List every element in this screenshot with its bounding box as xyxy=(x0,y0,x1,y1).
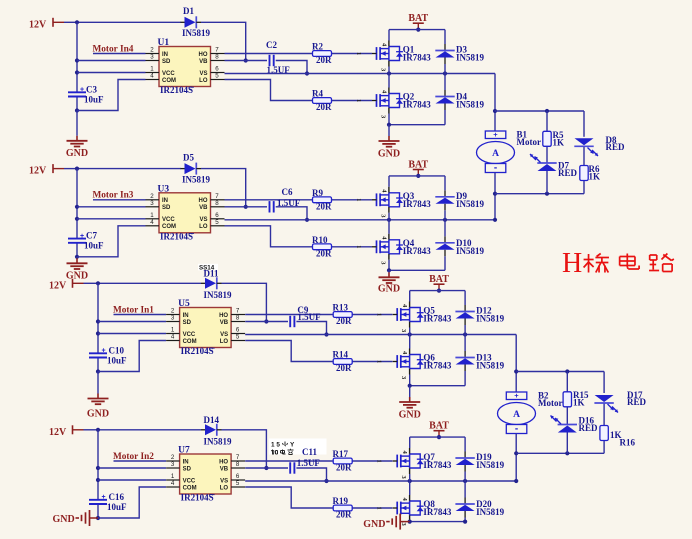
transistor Q4 IR7843 xyxy=(355,234,403,265)
wire SD tie S1 xyxy=(77,60,146,62)
label D9 xyxy=(456,191,467,201)
transistor Q5 IR7843 xyxy=(376,302,424,334)
svg-text:10uF: 10uF xyxy=(84,241,104,251)
label D13 IN5819 xyxy=(476,361,505,371)
label Q8 IR7843 xyxy=(423,507,452,517)
svg-text:IN5819: IN5819 xyxy=(456,246,485,256)
wire VB row S4 xyxy=(245,467,288,469)
label D16 xyxy=(579,416,595,426)
wire Q6 drain S3 xyxy=(409,335,411,349)
op-amp driver U3 IR2104S xyxy=(146,184,225,241)
svg-text:D11: D11 xyxy=(204,268,220,278)
svg-text:4: 4 xyxy=(150,219,154,226)
svg-text:20R: 20R xyxy=(336,316,352,326)
label Q7 IR7843 xyxy=(423,460,452,470)
net label Motor In3 S2 xyxy=(93,191,134,201)
net label Motor In4 S1 xyxy=(93,44,134,54)
wire VCC tie S1 xyxy=(77,72,146,74)
svg-text:HO: HO xyxy=(199,52,208,58)
wire LO to gate S3 xyxy=(245,341,392,362)
node 12V junction S3 xyxy=(96,281,100,285)
resistor R6 xyxy=(580,166,588,181)
capacitor C11 xyxy=(290,462,294,473)
wire Q8 drain S4 xyxy=(409,481,411,495)
wire COM return S3 xyxy=(98,341,166,372)
wire Q4 drain S2 xyxy=(388,220,390,234)
svg-text:VB: VB xyxy=(220,320,229,326)
svg-text:IN5819: IN5819 xyxy=(456,100,485,110)
svg-text:COM: COM xyxy=(183,339,197,345)
label Q1 IR7843 xyxy=(403,53,432,63)
label R19 20R xyxy=(336,510,352,520)
svg-text:2: 2 xyxy=(150,193,154,200)
svg-text:1K: 1K xyxy=(553,137,565,147)
label Q6 IR7843 xyxy=(423,361,452,371)
svg-text:+: + xyxy=(514,391,519,400)
wire 12V trunk S1 xyxy=(75,22,79,112)
resistor R16 xyxy=(600,426,608,441)
svg-text:COM: COM xyxy=(162,224,176,230)
svg-text:IN: IN xyxy=(183,459,189,465)
text note SS14 xyxy=(198,264,218,272)
wire COM return S2 xyxy=(77,226,146,257)
label D3 xyxy=(456,45,467,55)
svg-text:1.5UF: 1.5UF xyxy=(297,312,321,322)
wire LED rail bottom B2 xyxy=(516,451,604,455)
wire VCC tie S4 xyxy=(98,479,166,481)
svg-text:1: 1 xyxy=(376,360,383,363)
svg-text:1: 1 xyxy=(171,473,175,480)
diode D10 xyxy=(435,236,454,256)
label Q4 IR7843 xyxy=(403,246,432,256)
svg-text:8: 8 xyxy=(215,200,219,207)
label C6 xyxy=(277,187,301,208)
label D14 xyxy=(204,415,220,425)
svg-text:IR7843: IR7843 xyxy=(423,460,452,470)
svg-text:VS: VS xyxy=(199,71,207,77)
wire C6 to VS S2 xyxy=(276,207,309,222)
label D14 IN5819 xyxy=(204,436,233,446)
wire D17-R16 branch xyxy=(603,372,605,454)
svg-text:6: 6 xyxy=(215,66,219,73)
svg-text:SD: SD xyxy=(183,466,192,472)
svg-text:BAT: BAT xyxy=(408,13,428,24)
wire D9 column S2 xyxy=(444,176,446,220)
ground bridge S2 xyxy=(378,270,400,294)
wire bottom rail S4 xyxy=(408,520,466,524)
svg-text:R13: R13 xyxy=(333,303,349,313)
svg-text:IN: IN xyxy=(162,198,168,204)
svg-text:7: 7 xyxy=(236,308,240,315)
svg-text:6: 6 xyxy=(215,212,219,219)
diode D11 xyxy=(201,277,222,289)
wire LED rail top B1 xyxy=(495,109,584,113)
svg-text:U5: U5 xyxy=(178,299,190,309)
svg-text:5: 5 xyxy=(236,480,240,487)
svg-text:12V: 12V xyxy=(29,166,47,177)
svg-text:C2: C2 xyxy=(266,40,277,50)
label D20 xyxy=(476,499,492,509)
wire D20 column S4 xyxy=(464,481,466,522)
label R2 20R xyxy=(316,55,332,65)
svg-text:1: 1 xyxy=(376,313,383,316)
svg-text:Motor: Motor xyxy=(538,398,563,408)
resistor R13 xyxy=(333,312,352,318)
svg-text:10uF: 10uF xyxy=(107,502,127,512)
label Q4 xyxy=(403,238,415,248)
svg-text:LO: LO xyxy=(199,78,208,84)
LED D8 red xyxy=(574,138,598,156)
wire bottom rail S2 xyxy=(387,268,445,272)
svg-text:VB: VB xyxy=(220,466,229,472)
wire LO to gate S1 xyxy=(225,80,373,101)
wire C11 to VS S4 xyxy=(296,468,328,483)
svg-text:RED: RED xyxy=(558,168,578,178)
svg-text:A: A xyxy=(513,410,520,420)
transistor Q8 IR7843 xyxy=(376,495,424,527)
svg-text:8: 8 xyxy=(215,54,219,61)
wire HO to gate S3 xyxy=(245,314,392,316)
label Q2 xyxy=(403,92,415,102)
diode D1 xyxy=(181,16,202,28)
label D5 IN5819 xyxy=(182,174,211,184)
resistor R19 xyxy=(333,505,352,511)
svg-text:R19: R19 xyxy=(333,496,349,506)
label C7 xyxy=(80,231,104,251)
wire Q2 source S1 xyxy=(388,114,390,125)
label D11 IN5819 xyxy=(204,290,233,300)
power port BAT S2 xyxy=(408,159,428,178)
label Q7 xyxy=(423,452,435,462)
svg-text:GND: GND xyxy=(66,148,88,159)
wire 12V rail S3 xyxy=(98,282,201,284)
svg-text:1: 1 xyxy=(355,99,362,102)
wire LO to gate S2 xyxy=(225,226,373,247)
label Q5 IR7843 xyxy=(423,314,452,324)
wire D4 column S1 xyxy=(444,74,446,125)
label D3 IN5819 xyxy=(456,53,485,63)
svg-text:5: 5 xyxy=(236,334,240,341)
ground bridge S4 xyxy=(363,514,410,531)
svg-text:3: 3 xyxy=(171,315,175,322)
svg-text:1: 1 xyxy=(355,198,362,201)
svg-text:IN5819: IN5819 xyxy=(476,314,505,324)
resistor R10 xyxy=(313,244,332,250)
svg-text:+: + xyxy=(102,494,106,501)
label D13 xyxy=(476,353,492,363)
diode D9 xyxy=(435,190,454,210)
text note capacitor xyxy=(269,439,327,455)
label D4 xyxy=(456,92,467,102)
svg-text:-: - xyxy=(494,163,497,174)
label R9 xyxy=(312,188,323,198)
svg-text:U3: U3 xyxy=(158,184,170,194)
wire VCC tie S2 xyxy=(77,218,146,220)
label D9 IN5819 xyxy=(456,199,485,209)
label D8 xyxy=(606,135,617,145)
capacitor C2 xyxy=(270,55,274,66)
svg-text:20R: 20R xyxy=(336,510,352,520)
svg-text:2: 2 xyxy=(171,308,175,315)
svg-text:Motor: Motor xyxy=(517,137,542,147)
svg-text:R9: R9 xyxy=(312,188,323,198)
label R14 20R xyxy=(336,363,352,373)
svg-text:IN5819: IN5819 xyxy=(476,361,505,371)
svg-text:IN: IN xyxy=(162,52,168,58)
wire BAT rail S2 xyxy=(389,175,445,177)
label D19 xyxy=(476,452,492,462)
svg-text:RED: RED xyxy=(606,142,626,152)
label C16 xyxy=(102,492,128,512)
svg-text:1.5UF: 1.5UF xyxy=(277,198,301,208)
svg-text:GND: GND xyxy=(66,270,88,281)
svg-text:COM: COM xyxy=(183,485,197,491)
LED D7 red xyxy=(530,154,557,171)
wire Q5 source to phase S3 xyxy=(409,328,411,335)
power port 12V S2 xyxy=(29,164,77,177)
label D17 RED xyxy=(627,397,647,407)
svg-text:20R: 20R xyxy=(316,102,332,112)
label C11 xyxy=(297,447,321,468)
resistor R15 xyxy=(563,392,571,407)
label D11 xyxy=(204,268,220,278)
svg-text:IN5819: IN5819 xyxy=(182,28,211,38)
label D7 RED xyxy=(558,168,578,178)
svg-text:10uF: 10uF xyxy=(107,355,127,365)
wire D14 cathode to VB S4 xyxy=(222,430,269,470)
label Q8 xyxy=(423,499,435,509)
wire D19 column S4 xyxy=(464,437,466,481)
svg-text:2: 2 xyxy=(150,47,154,54)
node Q8 source junction S4 xyxy=(463,520,467,524)
label Q1 xyxy=(403,45,415,55)
label R13 20R xyxy=(336,316,352,326)
svg-text:1 5: 1 5 xyxy=(271,442,280,449)
wire C9 to VS S3 xyxy=(296,322,328,337)
svg-text:10uF: 10uF xyxy=(84,94,104,104)
svg-text:IN5819: IN5819 xyxy=(456,199,485,209)
wire BAT rail S3 xyxy=(410,290,465,292)
svg-text:H: H xyxy=(562,248,582,279)
wire 12V trunk S3 xyxy=(96,283,100,373)
svg-text:1K: 1K xyxy=(573,397,585,407)
wire COM return S4 xyxy=(98,487,166,518)
label R6 1K xyxy=(589,171,601,181)
wire SD tie S3 xyxy=(98,321,166,323)
capacitor C9 xyxy=(290,316,294,327)
wire D12 column S3 xyxy=(464,291,466,335)
label D10 IN5819 xyxy=(456,246,485,256)
svg-text:VS: VS xyxy=(199,217,207,223)
svg-text:LO: LO xyxy=(220,485,229,491)
resistor R4 xyxy=(313,98,332,104)
svg-text:1: 1 xyxy=(150,66,154,73)
label R16 1K xyxy=(610,430,622,440)
label C3 xyxy=(80,84,104,104)
svg-text:GND: GND xyxy=(363,519,385,530)
capacitor C3 xyxy=(68,92,86,96)
label D1 IN5819 xyxy=(182,28,211,38)
svg-text:12V: 12V xyxy=(49,427,67,438)
svg-text:VS: VS xyxy=(220,478,228,484)
svg-text:7: 7 xyxy=(215,193,219,200)
wire BAT rail S4 xyxy=(410,436,465,438)
svg-text:1K: 1K xyxy=(589,171,601,181)
label C2 xyxy=(266,40,290,75)
svg-text:1: 1 xyxy=(150,212,154,219)
resistor R5 xyxy=(543,131,551,146)
resistor R2 xyxy=(313,51,332,57)
svg-text:4: 4 xyxy=(150,73,154,80)
svg-text:SD: SD xyxy=(162,205,171,211)
svg-text:VB: VB xyxy=(199,205,208,211)
svg-text:6: 6 xyxy=(236,473,240,480)
svg-text:12V: 12V xyxy=(49,280,67,291)
wire VB row S1 xyxy=(225,60,268,62)
svg-text:+: + xyxy=(80,87,84,94)
capacitor C16 xyxy=(89,500,107,504)
node 12V junction S1 xyxy=(75,20,79,24)
ground GND left S3 xyxy=(87,372,109,420)
svg-text:20R: 20R xyxy=(316,55,332,65)
svg-text:1.5UF: 1.5UF xyxy=(297,458,321,468)
label D12 IN5819 xyxy=(476,314,505,324)
svg-text:VCC: VCC xyxy=(162,71,175,77)
wire VB row S2 xyxy=(225,206,268,208)
wire D10 column S2 xyxy=(444,220,446,270)
svg-text:BAT: BAT xyxy=(408,159,428,170)
svg-text:C11: C11 xyxy=(302,447,318,457)
wire Q3 source to phase S2 xyxy=(388,213,390,220)
svg-text:D1: D1 xyxy=(183,6,194,16)
label D16 RED xyxy=(579,423,599,433)
label C9 xyxy=(297,305,321,322)
label D4 IN5819 xyxy=(456,100,485,110)
power port 12V S1 xyxy=(29,18,77,31)
svg-text:C10: C10 xyxy=(109,345,125,355)
ground GND left S2 xyxy=(66,257,88,282)
transistor Q3 IR7843 xyxy=(355,187,403,219)
svg-text:3: 3 xyxy=(171,461,175,468)
svg-text:C16: C16 xyxy=(109,492,125,502)
label R4 xyxy=(312,89,323,99)
label R10 xyxy=(312,235,328,245)
svg-text:HO: HO xyxy=(219,459,228,465)
svg-text:D5: D5 xyxy=(183,152,194,162)
svg-text:IN5819: IN5819 xyxy=(204,290,233,300)
label Q6 xyxy=(423,353,435,363)
svg-text:12V: 12V xyxy=(29,19,47,30)
svg-text:IR7843: IR7843 xyxy=(403,100,432,110)
label D19 IN5819 xyxy=(476,460,505,470)
ground GND left S4 xyxy=(53,510,99,526)
power port BAT S4 xyxy=(429,421,449,440)
net label Motor In1 S3 xyxy=(113,305,154,315)
svg-text:1: 1 xyxy=(376,460,383,463)
wire LO to gate S4 xyxy=(245,487,392,508)
diode D19 xyxy=(455,452,474,472)
label R17 20R xyxy=(336,463,352,473)
wire 12V rail S1 xyxy=(77,21,181,23)
label R10 20R xyxy=(316,249,332,259)
label R2 xyxy=(312,42,323,52)
svg-text:R10: R10 xyxy=(312,235,328,245)
label R15 1K xyxy=(573,397,585,407)
label D8 RED xyxy=(606,142,626,152)
svg-text:2: 2 xyxy=(171,454,175,461)
svg-text:U1: U1 xyxy=(158,38,170,48)
label D7 xyxy=(558,161,569,171)
wire VS phase S1 xyxy=(225,71,496,75)
svg-text:SD: SD xyxy=(183,320,192,326)
svg-text:VCC: VCC xyxy=(183,478,196,484)
svg-text:8: 8 xyxy=(236,461,240,468)
wire Q3 drain S2 xyxy=(388,176,390,187)
label R19 xyxy=(333,496,349,506)
wire 12V trunk S2 xyxy=(75,169,79,259)
diode D4 xyxy=(435,90,454,110)
power port 12V S4 xyxy=(49,425,98,438)
transistor Q2 IR7843 xyxy=(355,88,403,120)
ground bridge S1 xyxy=(378,125,400,160)
svg-text:C3: C3 xyxy=(86,84,97,94)
op-amp driver U7 IR2104S xyxy=(166,446,245,503)
svg-text:4: 4 xyxy=(171,480,175,487)
wire VS phase S2 xyxy=(225,218,496,222)
svg-text:IR7843: IR7843 xyxy=(403,246,432,256)
svg-text:IR2104S: IR2104S xyxy=(160,85,193,95)
label D1 xyxy=(183,6,194,16)
svg-text:6: 6 xyxy=(236,327,240,334)
wire 12V trunk S4 xyxy=(96,430,100,520)
wire D8-R6 branch xyxy=(583,111,585,194)
power port BAT S3 xyxy=(429,274,449,293)
svg-text:7: 7 xyxy=(236,454,240,461)
label R9 20R xyxy=(316,202,332,212)
resistor R9 xyxy=(313,197,332,203)
resistor R14 xyxy=(333,359,352,365)
wire Q7 source to phase S4 xyxy=(409,474,411,481)
diode D5 xyxy=(181,163,202,175)
wire Motor In2 to IN S4 xyxy=(114,460,167,462)
diode D20 xyxy=(455,498,474,518)
svg-text:R4: R4 xyxy=(312,89,323,99)
wire bottom rail S3 xyxy=(408,384,466,388)
capacitor C7 xyxy=(68,239,86,243)
wire Q6 source S3 xyxy=(409,375,411,386)
svg-text:R16: R16 xyxy=(620,438,636,448)
label Q2 IR7843 xyxy=(403,100,432,110)
wire COM return S1 xyxy=(77,80,146,111)
resistor R17 xyxy=(333,458,352,464)
svg-text:IR7843: IR7843 xyxy=(403,53,432,63)
label Q3 IR7843 xyxy=(403,199,432,209)
wire Q8 source S4 xyxy=(409,520,411,523)
ground GND left S1 xyxy=(66,111,88,159)
capacitor C6 xyxy=(270,201,274,212)
svg-text:LO: LO xyxy=(199,224,208,230)
wire D13 column S3 xyxy=(464,335,466,386)
svg-text:-: - xyxy=(515,424,518,435)
wire VB row S3 xyxy=(245,321,288,323)
text title H-bridge circuit xyxy=(562,248,674,279)
op-amp driver U1 IR2104S xyxy=(146,38,225,95)
svg-text:LO: LO xyxy=(220,339,229,345)
wire Q7 drain S4 xyxy=(409,437,411,448)
wire D3 column S1 xyxy=(444,30,446,74)
svg-text:IN5819: IN5819 xyxy=(476,460,505,470)
svg-text:D14: D14 xyxy=(204,415,220,425)
